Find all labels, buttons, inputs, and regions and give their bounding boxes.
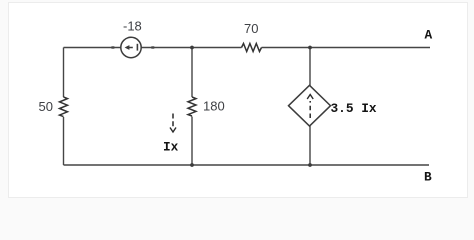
svg-text:Ix: Ix bbox=[163, 140, 179, 155]
svg-text:-18: -18 bbox=[123, 19, 142, 34]
svg-text:3.5 Ix: 3.5 Ix bbox=[331, 101, 377, 116]
svg-text:50: 50 bbox=[39, 99, 53, 114]
svg-text:A: A bbox=[425, 28, 433, 43]
svg-text:B: B bbox=[424, 170, 432, 185]
svg-text:70: 70 bbox=[244, 21, 258, 36]
svg-text:180: 180 bbox=[203, 99, 225, 114]
